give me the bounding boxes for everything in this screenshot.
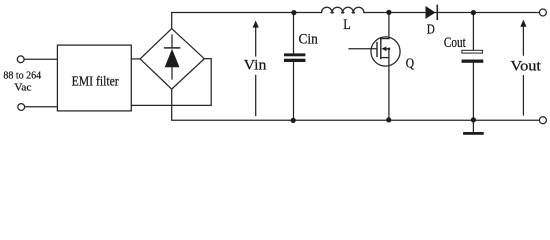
svg-text:D: D [427,22,435,37]
svg-text:L: L [343,17,351,33]
svg-text:Vout: Vout [510,59,541,75]
svg-text:EMI filter: EMI filter [72,74,120,89]
svg-text:88 to 264: 88 to 264 [3,71,42,82]
svg-text:Q: Q [406,55,415,70]
svg-text:Vin: Vin [244,58,268,74]
svg-text:Vac: Vac [14,83,32,94]
svg-text:Cin: Cin [299,32,319,48]
svg-text:Cout: Cout [444,35,466,51]
